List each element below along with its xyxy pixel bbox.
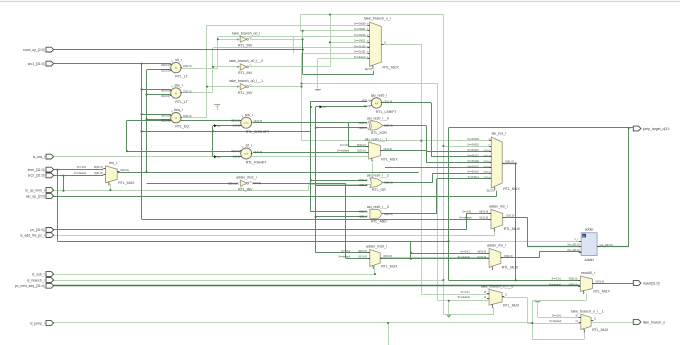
- svg-text:c_i: c_i: [575, 237, 579, 241]
- svg-text:RTL_MUX: RTL_MUX: [503, 187, 520, 191]
- svg-text:I7[31:0]: I7[31:0]: [484, 177, 491, 179]
- svg-text:I0[31:0]: I0[31:0]: [362, 99, 371, 103]
- svg-text:pc_[31:0]: pc_[31:0]: [31, 228, 45, 232]
- svg-text:O[31:0]: O[31:0]: [384, 123, 393, 127]
- svg-text:RTL_RSHIFT: RTL_RSHIFT: [246, 161, 268, 165]
- svg-text:I1[31:0]: I1[31:0]: [359, 183, 368, 187]
- svg-text:res_o[31:0]: res_o[31:0]: [600, 243, 613, 247]
- svg-text:D: D: [583, 234, 585, 238]
- svg-text:>>: >>: [244, 152, 248, 156]
- svg-text:srl_i: srl_i: [245, 144, 252, 148]
- svg-text:<<: <<: [375, 101, 379, 105]
- svg-text:I6[31:0]: I6[31:0]: [484, 172, 491, 174]
- svg-text:I1[31:0]: I1[31:0]: [161, 119, 170, 123]
- svg-text:I0[31:0]: I0[31:0]: [228, 181, 237, 185]
- svg-text:S==3'b011: S==3'b011: [354, 40, 366, 43]
- svg-text:I1[31:0]: I1[31:0]: [359, 126, 368, 130]
- svg-text:I0[31:0]: I0[31:0]: [359, 210, 368, 214]
- svg-text:is_branch_i: is_branch_i: [27, 278, 45, 282]
- svg-text:S==1'b1: S==1'b1: [341, 250, 351, 253]
- svg-text:alu_res_i: alu_res_i: [491, 132, 506, 136]
- svg-text:slt_i: slt_i: [175, 58, 181, 62]
- svg-text:jump_target_o[31:: jump_target_o[31:: [642, 127, 670, 131]
- svg-text:rhs_i[31:0]: rhs_i[31:0]: [567, 248, 579, 252]
- svg-text:I3[31:0]: I3[31:0]: [484, 155, 491, 157]
- svg-text:I0[31:0]: I0[31:0]: [161, 89, 170, 93]
- svg-text:S==1'b1: S==1'b1: [77, 166, 87, 169]
- svg-text:S==3'b101: S==3'b101: [354, 51, 366, 54]
- svg-text:alu_op_[2:0]: alu_op_[2:0]: [26, 194, 45, 198]
- svg-text:O[31:0]: O[31:0]: [254, 150, 263, 154]
- svg-text:RTL_MUX: RTL_MUX: [381, 265, 398, 269]
- svg-text:is_jump_i: is_jump_i: [30, 321, 45, 325]
- svg-text:S==1'b1: S==1'b1: [460, 291, 470, 294]
- svg-text:S==3'b100: S==3'b100: [467, 160, 479, 163]
- svg-text:I0[31:0]: I0[31:0]: [479, 210, 488, 214]
- svg-text:I1[31:0]: I1[31:0]: [359, 215, 368, 219]
- svg-text:adder_rhs0_i: adder_rhs0_i: [366, 245, 387, 249]
- svg-text:lhs_i[31:0]: lhs_i[31:0]: [568, 243, 580, 247]
- svg-text:S==3'b001: S==3'b001: [467, 144, 479, 147]
- svg-text:I0[31:0]: I0[31:0]: [231, 118, 240, 122]
- svg-text:imm_[31:0]: imm_[31:0]: [28, 168, 45, 172]
- svg-text:I0[31:0]: I0[31:0]: [359, 178, 368, 182]
- svg-text:alu_res0_i__3: alu_res0_i__3: [367, 205, 389, 209]
- svg-text:O[31:0]: O[31:0]: [183, 89, 192, 93]
- svg-text:S==default: S==default: [458, 296, 470, 299]
- svg-text:RTL_ARSHIFT: RTL_ARSHIFT: [246, 130, 270, 134]
- svg-text:S==default: S==default: [459, 216, 471, 219]
- svg-text:RTL_LT: RTL_LT: [175, 100, 188, 104]
- svg-text:I1[31:0]: I1[31:0]: [94, 171, 103, 175]
- svg-text:I0[31:0]: I0[31:0]: [161, 113, 170, 117]
- svg-text:RTL_EQ: RTL_EQ: [175, 125, 189, 129]
- svg-text:RTL_INV: RTL_INV: [238, 44, 253, 48]
- svg-text:S==3'b111: S==3'b111: [468, 176, 480, 179]
- svg-text:beq_i: beq_i: [174, 108, 183, 112]
- svg-text:S==3'b000: S==3'b000: [354, 23, 366, 26]
- svg-text:I1[4:0]: I1[4:0]: [233, 154, 240, 158]
- svg-text:S==3'b110: S==3'b110: [467, 171, 479, 174]
- svg-text:I1[4:0]: I1[4:0]: [363, 104, 370, 108]
- svg-text:O[31:0]: O[31:0]: [252, 181, 261, 185]
- svg-text:O[31:0]: O[31:0]: [254, 119, 263, 123]
- svg-text:RTL_MUX: RTL_MUX: [502, 266, 519, 270]
- svg-text:take_branch_o: take_branch_o: [643, 320, 666, 324]
- svg-text:RTL_INV: RTL_INV: [238, 188, 253, 192]
- svg-text:RTL_MUX: RTL_MUX: [593, 290, 610, 294]
- svg-text:S==default: S==default: [337, 150, 349, 153]
- svg-text:adder_rhs1_i: adder_rhs1_i: [236, 176, 257, 180]
- svg-text:S==default: S==default: [354, 56, 366, 59]
- svg-text:pc_next_seq_[31:0]: pc_next_seq_[31:0]: [15, 284, 45, 288]
- svg-text:S==3'b010: S==3'b010: [354, 34, 366, 37]
- svg-text:O[31:0]: O[31:0]: [595, 279, 604, 283]
- svg-text:result[31:0]: result[31:0]: [643, 281, 660, 285]
- svg-text:I0[31:0]: I0[31:0]: [161, 63, 170, 67]
- svg-text:S==default: S==default: [458, 256, 470, 259]
- svg-text:>>>: >>>: [244, 121, 249, 125]
- svg-text:is_op_imm_i: is_op_imm_i: [25, 188, 44, 192]
- svg-text:S==3'b100: S==3'b100: [354, 45, 366, 48]
- svg-text:S==1'b1: S==1'b1: [552, 278, 562, 281]
- svg-text:S==1'b1: S==1'b1: [552, 314, 562, 317]
- svg-text:S==3'b011: S==3'b011: [467, 154, 479, 157]
- svg-text:src2_[31:0]: src2_[31:0]: [28, 174, 45, 178]
- svg-text:O[31:0]: O[31:0]: [383, 254, 392, 258]
- svg-text:S==default: S==default: [74, 172, 86, 175]
- svg-text:RTL_XOR: RTL_XOR: [371, 131, 388, 135]
- svg-text:I0[31:0]: I0[31:0]: [358, 249, 367, 253]
- svg-text:I5[31:0]: I5[31:0]: [484, 166, 491, 168]
- svg-text:RTL_MUX: RTL_MUX: [504, 227, 521, 231]
- svg-text:result0_i: result0_i: [581, 271, 595, 275]
- svg-text:S[2:0]: S[2:0]: [365, 67, 372, 71]
- svg-text:RTL_AND: RTL_AND: [371, 219, 387, 223]
- svg-text:I0[31:0]: I0[31:0]: [357, 143, 366, 147]
- svg-text:RTL_LT: RTL_LT: [175, 74, 188, 78]
- svg-text:I1[31:0]: I1[31:0]: [357, 149, 366, 153]
- svg-text:alu_res0_i__0: alu_res0_i__0: [367, 117, 389, 121]
- svg-text:I1[31:0]: I1[31:0]: [161, 68, 170, 72]
- svg-text:S==1'b1: S==1'b1: [460, 251, 470, 254]
- svg-text:Adder: Adder: [585, 258, 595, 262]
- svg-text:rhs_i: rhs_i: [109, 161, 117, 165]
- svg-text:S==3'b010: S==3'b010: [467, 149, 479, 152]
- svg-text:is_sra_i: is_sra_i: [33, 155, 45, 159]
- svg-text:O[31:0]: O[31:0]: [384, 99, 393, 103]
- svg-text:I4[31:0]: I4[31:0]: [484, 161, 491, 163]
- svg-text:O: O: [505, 293, 507, 297]
- svg-text:is_add_lhs_pc_i: is_add_lhs_pc_i: [20, 233, 45, 237]
- svg-text:I0[31:0]: I0[31:0]: [477, 250, 486, 254]
- svg-text:take_branch_o0_i__1: take_branch_o0_i__1: [229, 79, 263, 83]
- svg-text:I1[31:0]: I1[31:0]: [569, 282, 578, 286]
- svg-text:RTL_MUX: RTL_MUX: [503, 303, 520, 307]
- svg-text:adder_lhs_i: adder_lhs_i: [489, 205, 508, 209]
- svg-text:RTL_MUX: RTL_MUX: [118, 181, 135, 185]
- svg-text:RTL_MUX: RTL_MUX: [383, 66, 400, 70]
- svg-text:I0[31:0]: I0[31:0]: [94, 165, 103, 169]
- svg-text:I1[31:0]: I1[31:0]: [161, 94, 170, 98]
- svg-text:O[31:0]: O[31:0]: [183, 64, 192, 68]
- svg-text:adder: adder: [585, 228, 595, 232]
- svg-text:S==default: S==default: [338, 256, 350, 259]
- svg-text:O: O: [250, 85, 252, 87]
- svg-text:sra_i: sra_i: [245, 113, 253, 117]
- svg-text:O: O: [384, 41, 386, 45]
- svg-text:O[31:0]: O[31:0]: [183, 114, 192, 118]
- svg-text:S==default: S==default: [549, 283, 561, 286]
- svg-text:I1[31:0]: I1[31:0]: [358, 255, 367, 259]
- svg-text:S==3'b001: S==3'b001: [354, 28, 366, 31]
- svg-text:alu_res0_i__2: alu_res0_i__2: [367, 174, 389, 178]
- svg-text:O[31:0]: O[31:0]: [383, 147, 392, 151]
- svg-text:adder_rhs_i: adder_rhs_i: [487, 244, 506, 248]
- svg-text:take_branch_o0_i__0: take_branch_o0_i__0: [229, 59, 263, 63]
- svg-text:I0[31:0]: I0[31:0]: [569, 277, 578, 281]
- svg-text:src1_[31:0]: src1_[31:0]: [28, 62, 45, 66]
- svg-text:RTL_MUX: RTL_MUX: [381, 157, 398, 161]
- svg-text:I0[31:0]: I0[31:0]: [231, 149, 240, 153]
- svg-text:RTL_INV: RTL_INV: [238, 71, 253, 75]
- svg-text:take_branch_o_i: take_branch_o_i: [364, 17, 391, 21]
- svg-text:I0[31:0]: I0[31:0]: [359, 121, 368, 125]
- svg-text:I1[4:0]: I1[4:0]: [233, 124, 240, 128]
- svg-text:S[2:0]: S[2:0]: [487, 189, 494, 193]
- svg-text:RTL_INV: RTL_INV: [238, 91, 253, 95]
- svg-text:S==3'b101: S==3'b101: [467, 165, 479, 168]
- svg-text:take_branch_o_i__1: take_branch_o_i__1: [571, 309, 604, 313]
- svg-text:RTL_OR: RTL_OR: [372, 188, 386, 192]
- svg-text:O: O: [250, 38, 252, 40]
- svg-text:take_branch_o0_i: take_branch_o0_i: [232, 32, 260, 36]
- svg-text:S==1'b1: S==1'b1: [462, 211, 472, 214]
- svg-text:RTL_MUX: RTL_MUX: [592, 328, 609, 332]
- svg-text:O[31:0]: O[31:0]: [506, 214, 515, 218]
- svg-text:O[31:0]: O[31:0]: [384, 212, 393, 216]
- svg-text:S==3'b000: S==3'b000: [467, 138, 479, 141]
- svg-text:RTL_LSHIFT: RTL_LSHIFT: [376, 110, 397, 114]
- svg-text:S==1'b1: S==1'b1: [340, 144, 350, 147]
- svg-text:O[31:0]: O[31:0]: [384, 181, 393, 185]
- svg-text:is_sub_i: is_sub_i: [32, 272, 45, 276]
- svg-text:S==default: S==default: [549, 320, 561, 323]
- svg-text:O[31:0]: O[31:0]: [504, 254, 513, 258]
- svg-text:O: O: [594, 317, 596, 321]
- svg-text:O[31:0]: O[31:0]: [120, 168, 129, 172]
- svg-text:cond_op_[2:0]: cond_op_[2:0]: [23, 48, 45, 52]
- svg-text:alu_res0_i__1: alu_res0_i__1: [365, 137, 388, 141]
- svg-text:O[31:0]: O[31:0]: [505, 160, 514, 164]
- svg-text:I1[31:0]: I1[31:0]: [477, 255, 486, 259]
- svg-text:sltu_i: sltu_i: [174, 83, 182, 87]
- svg-text:O: O: [250, 66, 252, 68]
- svg-text:I2[31:0]: I2[31:0]: [484, 150, 491, 152]
- svg-text:I1[31:0]: I1[31:0]: [479, 215, 488, 219]
- svg-text:take_branch_o_i__0: take_branch_o_i__0: [481, 285, 514, 289]
